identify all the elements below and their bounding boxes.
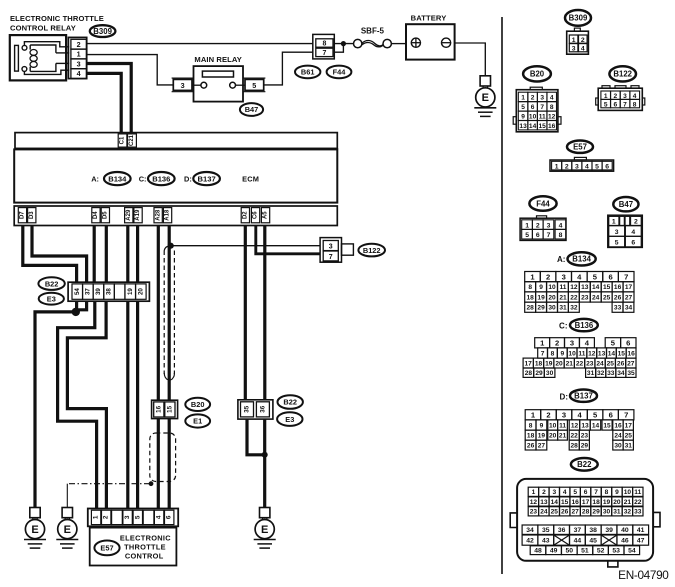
svg-text:4: 4 [581, 45, 585, 52]
svg-text:20: 20 [555, 360, 563, 367]
wire: B309 pin 1 to main relay pin 3 [87, 55, 174, 85]
svg-text:A5: A5 [263, 211, 269, 219]
svg-text:5: 5 [593, 272, 598, 281]
svg-text:32: 32 [597, 370, 605, 377]
svg-text:A28: A28 [155, 209, 161, 221]
svg-text:20: 20 [548, 294, 556, 301]
junction dot on A18 wire [168, 243, 174, 249]
svg-text:40: 40 [621, 527, 629, 534]
svg-text:1: 1 [540, 339, 545, 348]
svg-text:19: 19 [537, 294, 545, 301]
svg-text:33: 33 [607, 370, 615, 377]
svg-text:19: 19 [603, 499, 611, 506]
svg-text:6: 6 [536, 232, 540, 239]
svg-text:1: 1 [77, 50, 81, 59]
svg-text:7: 7 [540, 104, 544, 111]
svg-text:4: 4 [585, 339, 590, 348]
connector pinout B22 label [571, 458, 598, 471]
svg-text:6: 6 [166, 515, 173, 519]
connector pinout B309 label [565, 10, 591, 26]
svg-text:17: 17 [525, 360, 533, 367]
svg-text:F44: F44 [536, 199, 550, 208]
svg-text:17: 17 [582, 499, 590, 506]
svg-text:18: 18 [535, 360, 543, 367]
wire: junction down to joint connector pin 7 [334, 44, 343, 53]
svg-text:B136: B136 [152, 174, 170, 183]
svg-text:5: 5 [593, 411, 598, 420]
svg-text:17: 17 [625, 284, 633, 291]
svg-text:9: 9 [521, 114, 525, 121]
label ECM [242, 174, 259, 183]
svg-text:12: 12 [548, 114, 556, 121]
svg-text:27: 27 [572, 509, 580, 516]
svg-text:39: 39 [605, 527, 613, 534]
wire: ECM D2 to connector pin 35 (thick) [244, 226, 247, 400]
svg-text:9: 9 [540, 422, 544, 429]
battery with terminals [406, 24, 455, 59]
ground E for shield drain [56, 508, 78, 549]
connector pinout B309 with pins 1-4 [567, 28, 589, 54]
svg-text:B309: B309 [93, 27, 112, 36]
svg-text:1: 1 [612, 219, 616, 226]
svg-text:31: 31 [559, 305, 567, 312]
in-line connector B61/F44 with pins 8 and 7 [313, 34, 335, 59]
svg-text:2: 2 [546, 411, 550, 420]
svg-text:2: 2 [103, 515, 110, 519]
svg-text:2: 2 [634, 219, 638, 226]
svg-text:9: 9 [560, 350, 564, 357]
fuse SBF-5 (fusible link) [354, 39, 392, 47]
svg-text:B137: B137 [574, 392, 593, 401]
svg-text:C21: C21 [129, 134, 135, 146]
wire: B309 pin 2 to joint connector pin 8 [87, 43, 313, 45]
oval connector label F44 [327, 66, 352, 79]
wire: ECM D7 to connector pin 54 (thick) [23, 226, 77, 283]
svg-text:5: 5 [134, 515, 141, 519]
svg-text:12: 12 [588, 350, 596, 357]
svg-text:B47: B47 [619, 200, 633, 209]
svg-text:9: 9 [615, 489, 619, 496]
svg-text:4: 4 [77, 69, 81, 78]
svg-text:10: 10 [548, 284, 556, 291]
oval connector label E3 [39, 293, 64, 305]
connector pinout B122 with pins 1-8 [596, 86, 645, 111]
svg-text:4: 4 [156, 515, 163, 519]
svg-text:18: 18 [527, 433, 535, 440]
svg-text:25: 25 [551, 509, 559, 516]
svg-text:24: 24 [596, 360, 604, 367]
svg-text:EN-04790: EN-04790 [618, 568, 669, 582]
svg-text:5: 5 [573, 489, 577, 496]
ground E below connector 35/36 [254, 508, 276, 549]
connector strip on relay B309 with pins 2 1 3 4 [68, 37, 86, 78]
svg-text:23: 23 [530, 509, 538, 516]
svg-text:2: 2 [546, 272, 550, 281]
label: ELECTRONIC THROTTLE CONTROL RELAY [10, 14, 104, 33]
junction dot at fuse feed [341, 41, 346, 46]
wire: B20 pin 15 to ETC pin 6 (thick) [168, 419, 171, 509]
svg-text:26: 26 [527, 442, 535, 449]
wire: ECM A18 to connector B20 pin 15 (thick, shielded) [168, 226, 171, 401]
ground E left of ETC [24, 508, 46, 549]
svg-text:8: 8 [550, 104, 554, 111]
wire: A18 junction to connector B122 pin 3 (thin) [171, 245, 321, 247]
svg-text:5: 5 [252, 81, 256, 90]
svg-text:THROTTLE: THROTTLE [124, 542, 166, 551]
svg-text:3: 3 [572, 45, 576, 52]
svg-text:32: 32 [624, 509, 632, 516]
wire: ECM C6 to connector B122 pin 7 (thick) [256, 226, 320, 254]
svg-text:27: 27 [538, 442, 546, 449]
svg-text:5: 5 [615, 240, 619, 247]
svg-text:36: 36 [259, 405, 266, 412]
svg-text:8: 8 [605, 489, 609, 496]
electronic throttle control unit body [90, 528, 177, 566]
svg-text:23: 23 [586, 360, 594, 367]
connector pinout F44 with pins 1-8 [520, 216, 566, 241]
svg-text:E3: E3 [47, 294, 56, 303]
svg-text:2: 2 [77, 40, 81, 49]
svg-text:3: 3 [570, 339, 574, 348]
svg-text:11: 11 [634, 489, 641, 496]
svg-text:SBF-5: SBF-5 [361, 27, 385, 36]
svg-text:10: 10 [549, 422, 557, 429]
oval connector label B61 [295, 66, 320, 79]
svg-text:11: 11 [559, 422, 566, 429]
connector pinout B20 label [523, 66, 551, 81]
svg-text:6: 6 [626, 339, 630, 348]
svg-text:8: 8 [559, 232, 563, 239]
svg-text:B61: B61 [301, 68, 315, 77]
svg-text:48: 48 [534, 548, 542, 555]
svg-text:34: 34 [617, 370, 625, 377]
svg-text:6: 6 [608, 272, 612, 281]
svg-text:15: 15 [618, 350, 626, 357]
svg-text:5: 5 [595, 163, 599, 170]
svg-text:24: 24 [592, 294, 600, 301]
connector pinout B134 with pins 1-34 [525, 272, 634, 313]
connector pinout C: B136 label [559, 319, 598, 331]
svg-text:33: 33 [614, 305, 622, 312]
svg-text:12: 12 [571, 422, 579, 429]
svg-text:E: E [64, 524, 71, 536]
svg-text:4: 4 [563, 489, 567, 496]
svg-text:9: 9 [539, 284, 543, 291]
svg-text:19: 19 [127, 288, 134, 295]
svg-text:6: 6 [605, 163, 609, 170]
svg-text:31: 31 [613, 509, 621, 516]
svg-text:A:: A: [91, 174, 99, 183]
svg-text:45: 45 [589, 538, 597, 545]
wire: pin 35 elbow to ground junction [247, 419, 265, 455]
svg-text:38: 38 [589, 527, 597, 534]
svg-text:26: 26 [614, 294, 622, 301]
svg-text:26: 26 [617, 360, 625, 367]
svg-text:30: 30 [548, 305, 556, 312]
svg-text:33: 33 [634, 509, 642, 516]
svg-text:2: 2 [581, 37, 585, 44]
junction dot of shield drain [149, 481, 154, 486]
svg-text:22: 22 [634, 499, 642, 506]
svg-text:1: 1 [530, 272, 535, 281]
label: MAIN RELAY [194, 55, 242, 64]
connector pinout B136 with pins 1-35 [523, 338, 636, 378]
svg-text:5: 5 [521, 104, 525, 111]
wire: junction left and down to ground E [35, 312, 76, 508]
connector pinout B22 with pins 1-54 [522, 487, 649, 554]
wire: pin 36 down to ground E [263, 419, 266, 507]
svg-text:B22: B22 [577, 460, 592, 469]
svg-text:D5: D5 [103, 211, 109, 219]
svg-text:16: 16 [548, 123, 556, 130]
svg-text:B122: B122 [363, 246, 381, 255]
svg-text:7: 7 [624, 272, 628, 281]
svg-text:3: 3 [329, 244, 333, 251]
svg-text:8: 8 [633, 101, 637, 108]
connector pinout A: B134 label [557, 252, 596, 265]
svg-text:22: 22 [571, 433, 579, 440]
label: BATTERY [411, 14, 447, 23]
label: SBF-5 [361, 27, 385, 36]
svg-text:16: 16 [572, 499, 580, 506]
svg-text:6: 6 [613, 101, 617, 108]
svg-text:22: 22 [570, 294, 578, 301]
svg-text:B22: B22 [45, 279, 59, 288]
connector pinout D: B137 label [560, 390, 597, 402]
svg-text:20: 20 [549, 433, 557, 440]
junction dot below pin 54 [72, 308, 80, 316]
svg-text:23: 23 [581, 433, 589, 440]
connector pinout B22 housing [510, 479, 660, 567]
svg-text:5: 5 [525, 232, 529, 239]
svg-text:7: 7 [594, 489, 598, 496]
connector pinout E57 with pins 1-6 [550, 157, 614, 171]
svg-text:15: 15 [603, 284, 611, 291]
svg-text:3: 3 [562, 411, 566, 420]
svg-text:25: 25 [625, 433, 633, 440]
oval connector label B22 [38, 277, 64, 290]
svg-text:B309: B309 [569, 14, 588, 23]
diagram number EN-04790 [618, 568, 669, 582]
svg-text:A29: A29 [126, 209, 132, 221]
svg-text:22: 22 [576, 360, 584, 367]
svg-text:7: 7 [623, 101, 627, 108]
svg-text:4: 4 [577, 411, 582, 420]
connector pinout B122 label [609, 66, 636, 81]
svg-text:43: 43 [542, 538, 550, 545]
svg-text:E57: E57 [100, 544, 113, 553]
ECM bottom connector strip with pins D7 D3 D4 D5 A29 A19 A28 A18 D2 C6 A5 [14, 206, 337, 226]
svg-text:D2: D2 [243, 211, 249, 219]
svg-text:1: 1 [531, 411, 536, 420]
svg-text:1: 1 [93, 515, 100, 519]
svg-text:18: 18 [592, 499, 600, 506]
svg-text:ELECTRONIC THROTTLE: ELECTRONIC THROTTLE [10, 14, 104, 23]
svg-text:10: 10 [624, 489, 632, 496]
svg-text:2: 2 [542, 489, 546, 496]
svg-text:34: 34 [625, 305, 633, 312]
svg-text:16: 16 [627, 350, 635, 357]
svg-text:28: 28 [571, 442, 579, 449]
svg-text:39: 39 [95, 288, 102, 295]
wire: B309 pin 4 to ECM pin C1 (thick) [87, 73, 122, 132]
main relay pin box 3 [172, 78, 194, 92]
svg-text:13: 13 [540, 499, 548, 506]
main relay B47 body with coil and contacts [192, 66, 245, 102]
svg-text:1: 1 [572, 37, 576, 44]
svg-text:52: 52 [597, 548, 605, 555]
svg-text:B122: B122 [613, 70, 632, 79]
svg-text:49: 49 [550, 548, 558, 555]
svg-text:13: 13 [519, 123, 527, 130]
svg-text:3: 3 [181, 81, 185, 90]
svg-text:31: 31 [587, 370, 595, 377]
oval connector label B122 [358, 244, 385, 257]
shield around ETC wires (dashed box) [150, 433, 176, 482]
junction dot above ground [262, 452, 268, 458]
svg-text:2: 2 [555, 339, 559, 348]
ECM body [14, 149, 337, 202]
svg-text:36: 36 [558, 527, 566, 534]
svg-text:23: 23 [581, 294, 589, 301]
svg-text:2: 2 [536, 222, 540, 229]
svg-text:21: 21 [624, 499, 632, 506]
in-line connector B22/E3 with pins 54 37 39 38 19 20 [68, 282, 149, 301]
relay B309 (electronic throttle control relay) body and internals [10, 35, 69, 80]
svg-text:7: 7 [322, 50, 326, 57]
svg-text:2: 2 [531, 95, 535, 102]
in-line connector B22/E3 with pins 35 and 36 [238, 400, 273, 419]
svg-text:14: 14 [529, 123, 537, 130]
label C: B136 inside ECM [139, 172, 175, 185]
connector pinout E57 label [567, 141, 593, 153]
svg-text:D4: D4 [93, 211, 99, 219]
svg-text:4: 4 [585, 163, 589, 170]
label A: B134 inside ECM [91, 172, 130, 185]
svg-text:27: 27 [627, 360, 635, 367]
svg-text:13: 13 [581, 422, 589, 429]
oval connector label E1 [185, 414, 210, 427]
svg-text:4: 4 [631, 229, 635, 236]
svg-text:34: 34 [526, 527, 534, 534]
wire: pin 37 elbow to ground junction [76, 301, 87, 310]
svg-text:14: 14 [551, 499, 559, 506]
wire: ECM D3 to connector pin 37 (thick) [32, 226, 87, 283]
svg-text:20: 20 [613, 499, 621, 506]
svg-text:51: 51 [581, 548, 589, 555]
connector pinout B137 with pins 1-31 [525, 410, 634, 450]
svg-text:3: 3 [615, 229, 619, 236]
svg-text:47: 47 [637, 538, 645, 545]
wire: ECM A19 through pin 20 to ETC pin 5 (thick) [136, 226, 139, 509]
svg-text:A18: A18 [165, 209, 171, 221]
svg-text:16: 16 [155, 405, 162, 412]
svg-text:B136: B136 [575, 321, 594, 330]
svg-text:15: 15 [167, 405, 174, 412]
svg-text:4: 4 [550, 95, 554, 102]
svg-text:28: 28 [582, 509, 590, 516]
svg-text:37: 37 [574, 527, 582, 534]
oval connector label B22 right [278, 395, 303, 409]
svg-text:6: 6 [609, 411, 613, 420]
svg-text:MAIN RELAY: MAIN RELAY [194, 55, 242, 64]
svg-text:4: 4 [559, 222, 563, 229]
wire: battery to ground [455, 43, 486, 76]
svg-text:12: 12 [530, 499, 538, 506]
svg-text:ECM: ECM [242, 174, 259, 183]
svg-text:8: 8 [529, 422, 533, 429]
svg-text:25: 25 [603, 294, 611, 301]
svg-text:B134: B134 [572, 255, 591, 264]
svg-text:44: 44 [574, 538, 582, 545]
oval connector label B20 [185, 398, 210, 411]
svg-text:A:: A: [557, 255, 565, 264]
svg-text:6: 6 [631, 240, 635, 247]
svg-text:11: 11 [578, 350, 585, 357]
connector pinout B47 with pins 1-6 [608, 215, 643, 247]
svg-text:15: 15 [603, 422, 611, 429]
svg-text:53: 53 [612, 548, 620, 555]
svg-text:29: 29 [581, 442, 589, 449]
svg-text:20: 20 [138, 288, 145, 295]
svg-text:1: 1 [521, 95, 525, 102]
oval connector label B47 under main relay [240, 103, 263, 116]
wire: joint connector pin 8 to battery junction [334, 43, 354, 45]
svg-text:8: 8 [322, 41, 326, 48]
svg-text:26: 26 [561, 509, 569, 516]
svg-text:16: 16 [614, 422, 622, 429]
svg-text:B20: B20 [191, 400, 205, 409]
svg-text:24: 24 [614, 433, 622, 440]
svg-text:25: 25 [607, 360, 615, 367]
wire: B20 pin 16 to ETC pin 4 (thick) [157, 419, 160, 509]
svg-text:37: 37 [85, 288, 92, 295]
svg-text:A19: A19 [135, 209, 141, 221]
svg-text:1: 1 [555, 163, 559, 170]
svg-text:F44: F44 [333, 68, 347, 77]
label: ELECTRONIC THROTTLE CONTROL [120, 533, 171, 560]
shield around A18 wire (dash) [164, 246, 174, 380]
svg-text:11: 11 [539, 114, 546, 121]
svg-text:17: 17 [625, 422, 633, 429]
svg-text:30: 30 [614, 442, 622, 449]
connector pinout F44 label [529, 196, 556, 210]
svg-text:3: 3 [77, 59, 81, 68]
svg-text:7: 7 [624, 411, 628, 420]
wire: ECM A5 to connector pin 36 (thick) [263, 226, 266, 400]
svg-text:D3: D3 [29, 211, 35, 219]
svg-text:41: 41 [637, 527, 645, 534]
svg-text:15: 15 [539, 123, 547, 130]
svg-text:46: 46 [621, 538, 629, 545]
in-line connector B20/E1 with pins 16 and 15 [152, 400, 178, 418]
svg-text:6: 6 [584, 489, 588, 496]
svg-text:19: 19 [545, 360, 553, 367]
svg-text:B20: B20 [530, 70, 545, 79]
svg-text:ELECTRONIC: ELECTRONIC [120, 533, 171, 542]
main relay pin box 5 [243, 78, 265, 92]
svg-text:5: 5 [604, 101, 608, 108]
wire: pin 39 bracket to ETC pin 1 (thick) [58, 301, 97, 509]
svg-text:7: 7 [547, 232, 551, 239]
svg-text:29: 29 [592, 509, 600, 516]
wire: main relay pin 5 up to joint connector pin 7 [264, 52, 313, 85]
svg-text:D:: D: [560, 392, 568, 401]
svg-text:B22: B22 [283, 398, 297, 407]
divider line between schematic and connector views [501, 17, 503, 574]
svg-text:30: 30 [603, 509, 611, 516]
oval connector label E57 [94, 541, 119, 556]
